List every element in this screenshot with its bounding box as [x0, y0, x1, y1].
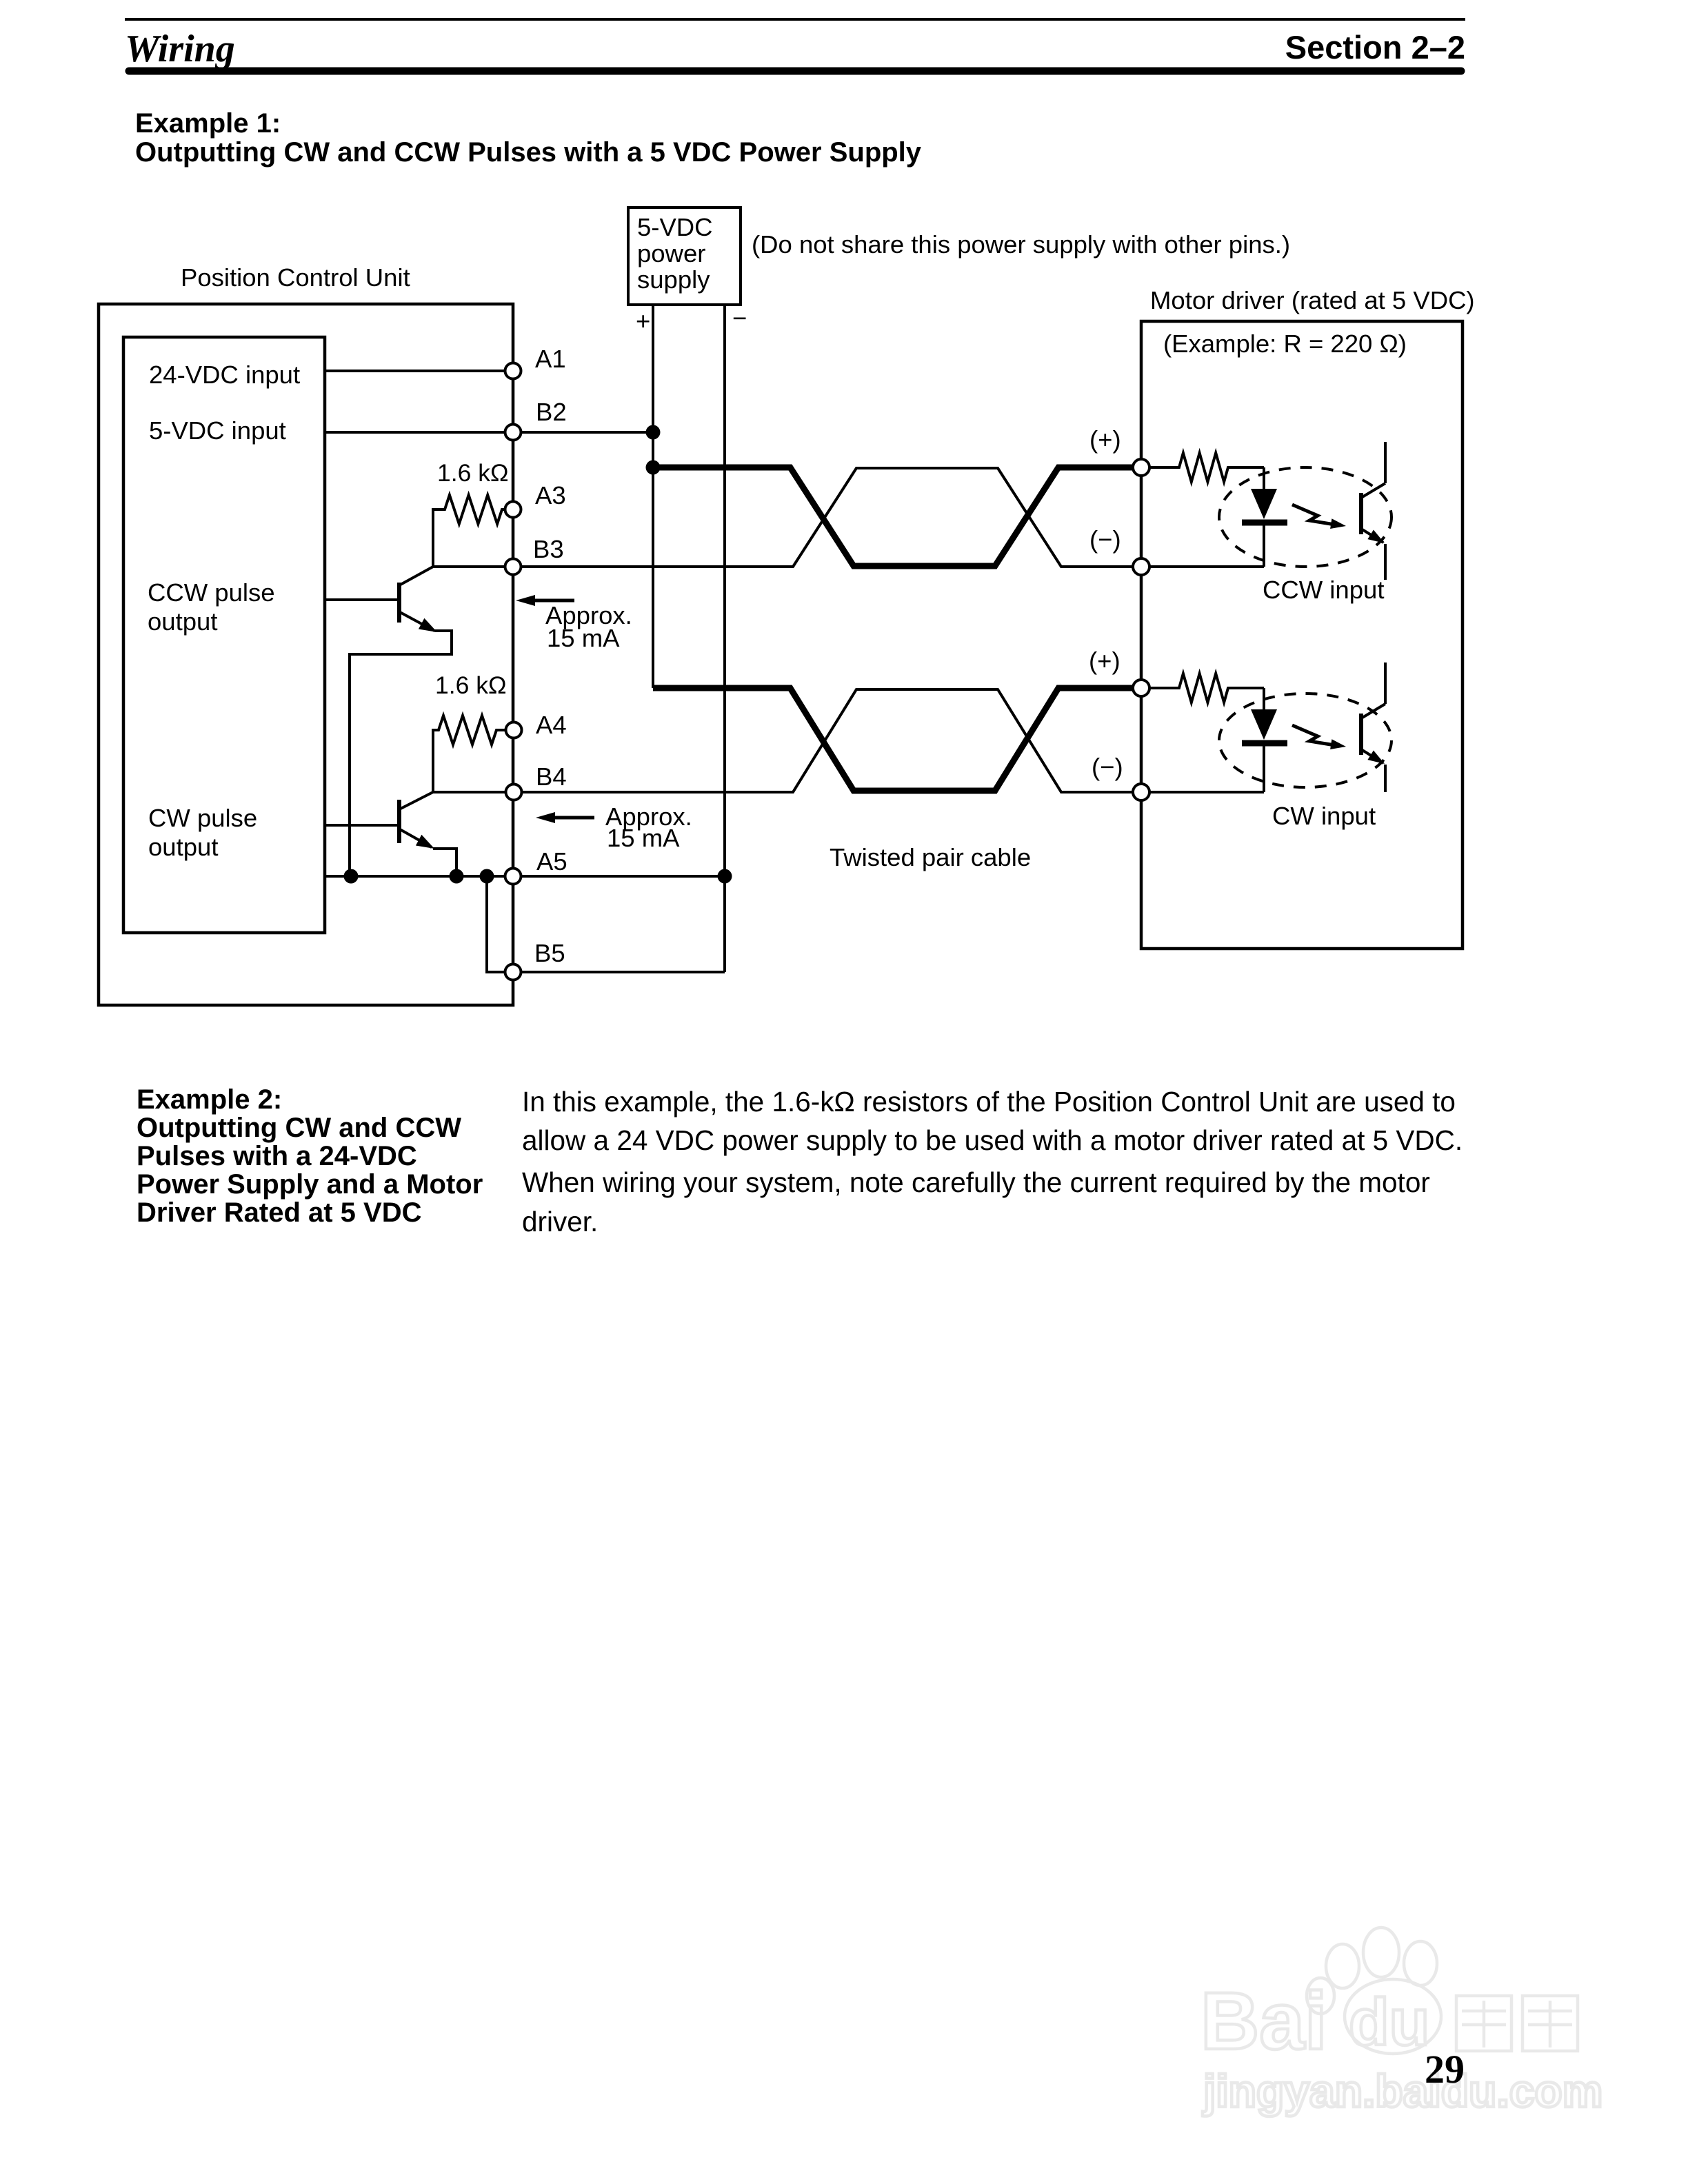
svg-text:output: output	[148, 607, 217, 636]
pin B3	[505, 559, 521, 575]
junction node Q2 emitter/A5	[450, 869, 464, 884]
svg-text:Driver Rated at 5 VDC: Driver Rated at 5 VDC	[137, 1197, 421, 1228]
resistor 1.6k (CCW)	[433, 495, 505, 567]
terminal CW -	[1133, 784, 1149, 800]
pin B2	[505, 425, 521, 441]
wire twisted pair CCW - (thin)	[513, 468, 1141, 567]
watermark hanzi jingyan	[1456, 1996, 1511, 2051]
svg-text:allow a 24 VDC power supply to: allow a 24 VDC power supply to be used w…	[522, 1124, 1463, 1156]
svg-text:output: output	[148, 833, 218, 861]
svg-text:Example 2:: Example 2:	[137, 1084, 282, 1115]
svg-text:Outputting CW and CCW: Outputting CW and CCW	[137, 1113, 461, 1143]
pin B5	[505, 964, 521, 980]
wire pin B3 to collector node	[433, 565, 513, 568]
svg-text:(−): (−)	[1092, 753, 1123, 781]
pin A5	[505, 869, 521, 884]
LED CCW	[1263, 467, 1265, 489]
svg-text:jingyan.baidu.com: jingyan.baidu.com	[1202, 2065, 1602, 2116]
svg-text:A5: A5	[536, 847, 567, 876]
terminal CCW +	[1133, 459, 1149, 476]
transistor Q2 (CW output)	[399, 792, 434, 849]
svg-text:Twisted pair cable: Twisted pair cable	[830, 843, 1031, 871]
svg-text:(+): (+)	[1089, 647, 1121, 675]
junction node A5/- rail	[718, 869, 732, 884]
wire Q1 emitter to A5 rail	[350, 631, 452, 876]
Position Control Unit outer box	[99, 304, 513, 1005]
PCU inner circuit box	[123, 337, 325, 933]
wire A5 common rail	[325, 875, 725, 878]
wire Q2 emitter to A5 rail	[433, 849, 456, 876]
svg-text:5-VDC input: 5-VDC input	[149, 416, 286, 445]
LED CW	[1263, 688, 1265, 709]
svg-text:(+): (+)	[1089, 425, 1121, 454]
svg-text:A4: A4	[536, 711, 567, 739]
svg-text:5-VDC: 5-VDC	[637, 213, 713, 241]
resistor R CCW	[1141, 453, 1264, 482]
wire 5-VDC input to pin B2	[325, 431, 513, 434]
wire CCW pulse output to Q1 base	[325, 598, 399, 601]
wire B5 to minus rail	[513, 971, 725, 973]
watermark paw print	[1326, 1944, 1359, 1988]
svg-text:1.6 kΩ: 1.6 kΩ	[435, 671, 507, 699]
svg-text:(−): (−)	[1089, 525, 1121, 554]
svg-text:CCW input: CCW input	[1263, 576, 1384, 604]
pin B4	[506, 785, 522, 800]
wire pin B4 to collector node	[433, 791, 514, 793]
junction node Q1 emitter/A5	[344, 869, 359, 884]
svg-text:−: −	[732, 304, 747, 332]
svg-text:When wiring your system, note: When wiring your system, note carefully …	[522, 1166, 1430, 1198]
svg-text:24-VDC input: 24-VDC input	[149, 361, 300, 389]
wire - rail	[723, 305, 726, 972]
svg-text:(Do not share this power suppl: (Do not share this power supply with oth…	[752, 230, 1290, 259]
resistor R CW	[1141, 674, 1264, 702]
svg-text:(Example: R = 220 Ω): (Example: R = 220 Ω)	[1163, 330, 1407, 358]
svg-text:+: +	[636, 307, 650, 335]
light arrow CCW	[1292, 505, 1335, 525]
svg-text:29: 29	[1425, 2047, 1465, 2092]
wire twisted pair CW - (thin)	[514, 689, 1141, 792]
svg-text:Wiring: Wiring	[125, 28, 235, 70]
junction node B2/+ rail	[646, 425, 661, 440]
optocoupler dashed ellipse CCW	[1219, 467, 1391, 567]
current arrow Approx 15 mA (CCW)	[530, 599, 574, 603]
light arrow CW	[1292, 725, 1335, 745]
pin A4	[506, 722, 522, 738]
terminal CCW -	[1133, 558, 1149, 575]
junction node B5 riser/A5	[480, 869, 494, 884]
svg-text:15 mA: 15 mA	[547, 624, 620, 652]
svg-text:supply: supply	[637, 265, 710, 294]
svg-text:A1: A1	[535, 345, 566, 373]
wire twisted pair CCW + (thick)	[653, 467, 1141, 566]
junction node + rail/CCW	[646, 461, 661, 475]
svg-text:B5: B5	[534, 939, 565, 967]
pin A1	[505, 363, 521, 379]
wire - terminal to LED CCW	[1141, 565, 1264, 568]
svg-text:Position Control Unit: Position Control Unit	[181, 263, 410, 292]
phototransistor CCW	[1361, 442, 1385, 580]
svg-text:CW input: CW input	[1272, 802, 1376, 830]
svg-text:In this example, the 1.6-kΩ re: In this example, the 1.6-kΩ resistors of…	[522, 1086, 1456, 1118]
svg-text:B3: B3	[533, 535, 564, 563]
motor driver box	[1141, 321, 1463, 949]
svg-text:Power Supply and a Motor: Power Supply and a Motor	[137, 1169, 483, 1200]
header top rule	[125, 18, 1465, 21]
svg-text:Example 1:: Example 1:	[135, 108, 281, 139]
pin A3	[505, 502, 521, 518]
current arrow Approx 15 mA (CW)	[550, 816, 594, 820]
wire twisted pair CW + (thick)	[653, 688, 1141, 791]
svg-text:Section 2–2: Section 2–2	[1285, 29, 1465, 65]
svg-text:power: power	[637, 239, 705, 267]
5-VDC power supply box	[628, 208, 741, 305]
svg-text:B4: B4	[536, 762, 567, 791]
transistor Q1 (CCW output)	[399, 567, 437, 632]
wire CW pulse output to Q2 base	[325, 824, 399, 827]
svg-text:B2: B2	[536, 398, 567, 426]
svg-text:A3: A3	[535, 481, 566, 509]
svg-text:driver.: driver.	[522, 1206, 598, 1237]
phototransistor CW	[1361, 663, 1385, 792]
heading Example 2	[137, 1084, 483, 1228]
wire 24-VDC input to pin A1	[325, 370, 513, 372]
svg-text:Outputting CW and CCW Pulses w: Outputting CW and CCW Pulses with a 5 VD…	[135, 137, 922, 168]
body paragraph 1	[522, 1086, 1463, 1237]
wire - terminal to LED CW	[1141, 791, 1264, 793]
svg-text:CW pulse: CW pulse	[148, 804, 257, 832]
svg-text:Motor driver (rated at 5 VDC): Motor driver (rated at 5 VDC)	[1150, 286, 1475, 314]
terminal CW +	[1133, 680, 1149, 696]
svg-text:Pulses with a 24-VDC: Pulses with a 24-VDC	[137, 1141, 417, 1171]
svg-text:CCW pulse: CCW pulse	[148, 578, 275, 607]
wire A5 to B5 riser	[487, 876, 513, 972]
wire + rail	[652, 305, 654, 688]
svg-text:1.6 kΩ: 1.6 kΩ	[437, 459, 509, 487]
wire pin B2 to + rail	[513, 431, 653, 434]
optocoupler dashed ellipse CW	[1219, 694, 1391, 787]
header bottom rule	[129, 68, 1461, 75]
resistor 1.6k (CW)	[433, 716, 505, 792]
svg-text:15 mA: 15 mA	[607, 824, 680, 852]
